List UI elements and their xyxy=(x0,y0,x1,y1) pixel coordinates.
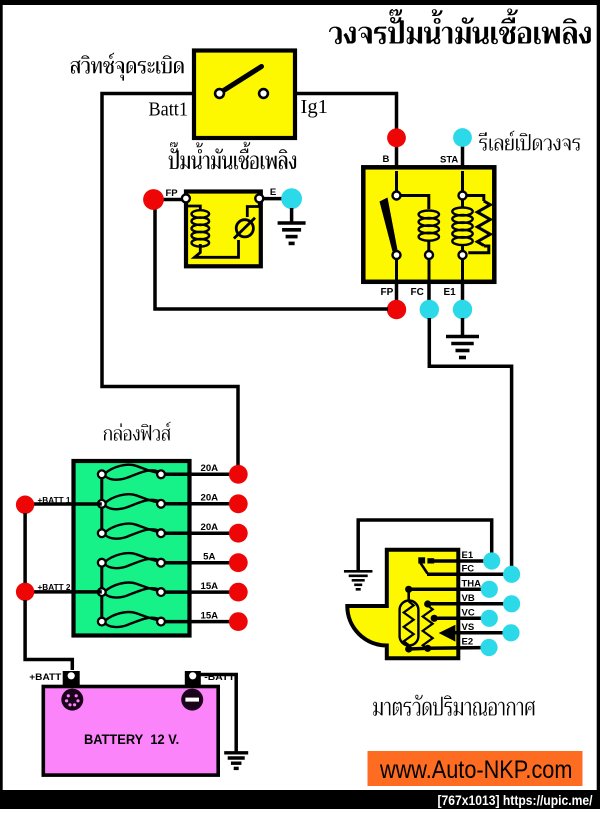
wire Ig1 to node B xyxy=(295,94,397,131)
svg-text:5A: 5A xyxy=(203,552,215,563)
svg-text:BATTERY 12 V.: BATTERY 12 V. xyxy=(84,732,179,747)
node FC (air flow meter) xyxy=(503,566,520,583)
label รีเลย์เปิดวงจร (circuit opening relay) xyxy=(479,131,581,151)
svg-text:15A: 15A xyxy=(200,581,218,592)
wire VB row xyxy=(428,602,504,606)
relay switch contact xyxy=(380,171,401,281)
svg-text:E1: E1 xyxy=(462,550,474,561)
svg-text:20A: 20A xyxy=(200,463,218,474)
node VS (air flow meter) xyxy=(502,624,519,641)
relay coil L1 xyxy=(401,196,439,282)
fuse bus (rows 1-3) xyxy=(100,474,103,533)
potentiometer xyxy=(423,600,438,652)
svg-text:15A: 15A xyxy=(200,610,218,621)
air flow meter FC contact xyxy=(418,557,434,573)
wire THA row xyxy=(409,588,481,592)
svg-text:THA: THA xyxy=(462,579,482,590)
svg-text:FP: FP xyxy=(381,287,394,298)
node STA xyxy=(461,140,465,167)
wire E1 row xyxy=(433,559,484,563)
fuse F4 5A xyxy=(0,495,600,809)
wire FC to air flow meter xyxy=(429,318,511,566)
svg-text:E: E xyxy=(270,187,276,198)
fuse F1 20A xyxy=(0,463,600,809)
node B xyxy=(395,138,399,167)
wire +BATT2 to fuses xyxy=(30,590,102,594)
svg-text:E1: E1 xyxy=(444,287,457,298)
thermistor THA xyxy=(400,586,419,653)
svg-text:B: B xyxy=(383,154,390,165)
fuel pump M1 xyxy=(162,192,282,267)
fuse F6 15A xyxy=(0,495,600,809)
fuse F2 20A xyxy=(0,493,600,809)
label สวิทช์จุดระเบิด (ignition switch) xyxy=(71,53,184,81)
svg-text:+BATT: +BATT xyxy=(29,672,62,682)
svg-text:VS: VS xyxy=(462,622,475,633)
svg-text:+BATT 2: +BATT 2 xyxy=(38,582,71,592)
wire +BATT1 to fuses xyxy=(30,502,102,506)
node VC (air flow meter) xyxy=(481,610,498,627)
node fuse F4 output xyxy=(229,553,248,572)
wire E2 row xyxy=(409,648,481,649)
node E (pump) xyxy=(281,188,302,209)
svg-text:20A: 20A xyxy=(200,493,218,504)
node fuse F5 output xyxy=(229,583,248,602)
ground at battery xyxy=(224,751,248,754)
wire E1 (air flow meter) to ground xyxy=(358,520,492,570)
battery BT1 12V xyxy=(43,671,218,775)
fuse F3 20A xyxy=(0,495,600,809)
ground at pump E xyxy=(278,208,306,243)
wire VC row xyxy=(434,617,481,621)
svg-text:www.Auto-NKP.com: www.Auto-NKP.com xyxy=(379,756,572,784)
wire +BATT1 to +BATT2 xyxy=(23,513,27,583)
watermark banner xyxy=(368,751,583,786)
svg-text:FC: FC xyxy=(462,564,475,575)
svg-text:VC: VC xyxy=(462,608,475,619)
label มาตรวัดปริมาณอากาศ (air flow meter) xyxy=(373,695,535,716)
node THA (air flow meter) xyxy=(481,581,498,598)
node fuse F3 output xyxy=(229,524,248,543)
wire FP to fuel pump xyxy=(155,208,388,309)
svg-text:+BATT 1: +BATT 1 xyxy=(38,495,71,505)
node VB (air flow meter) xyxy=(503,595,520,612)
label ปั๊มน้ำมันเชื้อเพลิง (fuel pump) xyxy=(169,142,296,170)
ignition switch SW1 xyxy=(194,51,295,139)
footer bar xyxy=(0,790,600,809)
node +BATT 1 xyxy=(16,496,34,514)
fuse box xyxy=(74,461,190,636)
relay coil L2 xyxy=(452,171,472,281)
node E2 (air flow meter) xyxy=(480,639,497,656)
fuse F5 15A xyxy=(0,495,600,809)
svg-text:FP: FP xyxy=(166,188,179,199)
ground at air flow meter E1 xyxy=(344,570,373,573)
label กล่องฟิวส์ (fuse box) xyxy=(104,422,171,441)
node FP (relay) xyxy=(395,284,399,302)
wire +BATT2 to battery xyxy=(25,600,72,670)
air flow meter U2 body xyxy=(347,550,458,659)
node FC (relay) xyxy=(427,284,431,302)
node E1 (air flow meter) xyxy=(483,552,500,569)
wire VS row xyxy=(453,631,503,635)
svg-text:[767x1013] https://upic.me/: [767x1013] https://upic.me/ xyxy=(438,792,593,808)
node +BATT 2 xyxy=(16,583,34,601)
node FP (pump) xyxy=(143,189,164,210)
ground at relay E1 xyxy=(446,318,479,358)
wire Batt1 to fuse F1 xyxy=(102,94,238,475)
wiper arrow VS xyxy=(439,625,456,642)
node fuse F2 output xyxy=(229,494,248,513)
svg-text:Ig1: Ig1 xyxy=(301,96,329,118)
node E1 (relay) xyxy=(461,284,465,302)
svg-text:20A: 20A xyxy=(200,522,218,533)
fuse bus (rows 4-6) xyxy=(100,563,103,622)
svg-text:VB: VB xyxy=(462,593,475,604)
wire -BATT to ground xyxy=(197,675,236,753)
svg-text:STA: STA xyxy=(440,154,458,165)
svg-text:Batt1: Batt1 xyxy=(149,99,189,121)
relay U1 box xyxy=(363,167,494,281)
svg-text:FC: FC xyxy=(411,287,424,298)
svg-text:E2: E2 xyxy=(462,637,474,648)
title วงจรปั๊มน้ำมันเชื้อเพลิง xyxy=(329,9,591,45)
node fuse F6 output xyxy=(229,612,248,631)
wire FC row xyxy=(427,573,504,577)
relay resistor R1 xyxy=(467,196,491,253)
node fuse F1 output xyxy=(229,465,248,484)
